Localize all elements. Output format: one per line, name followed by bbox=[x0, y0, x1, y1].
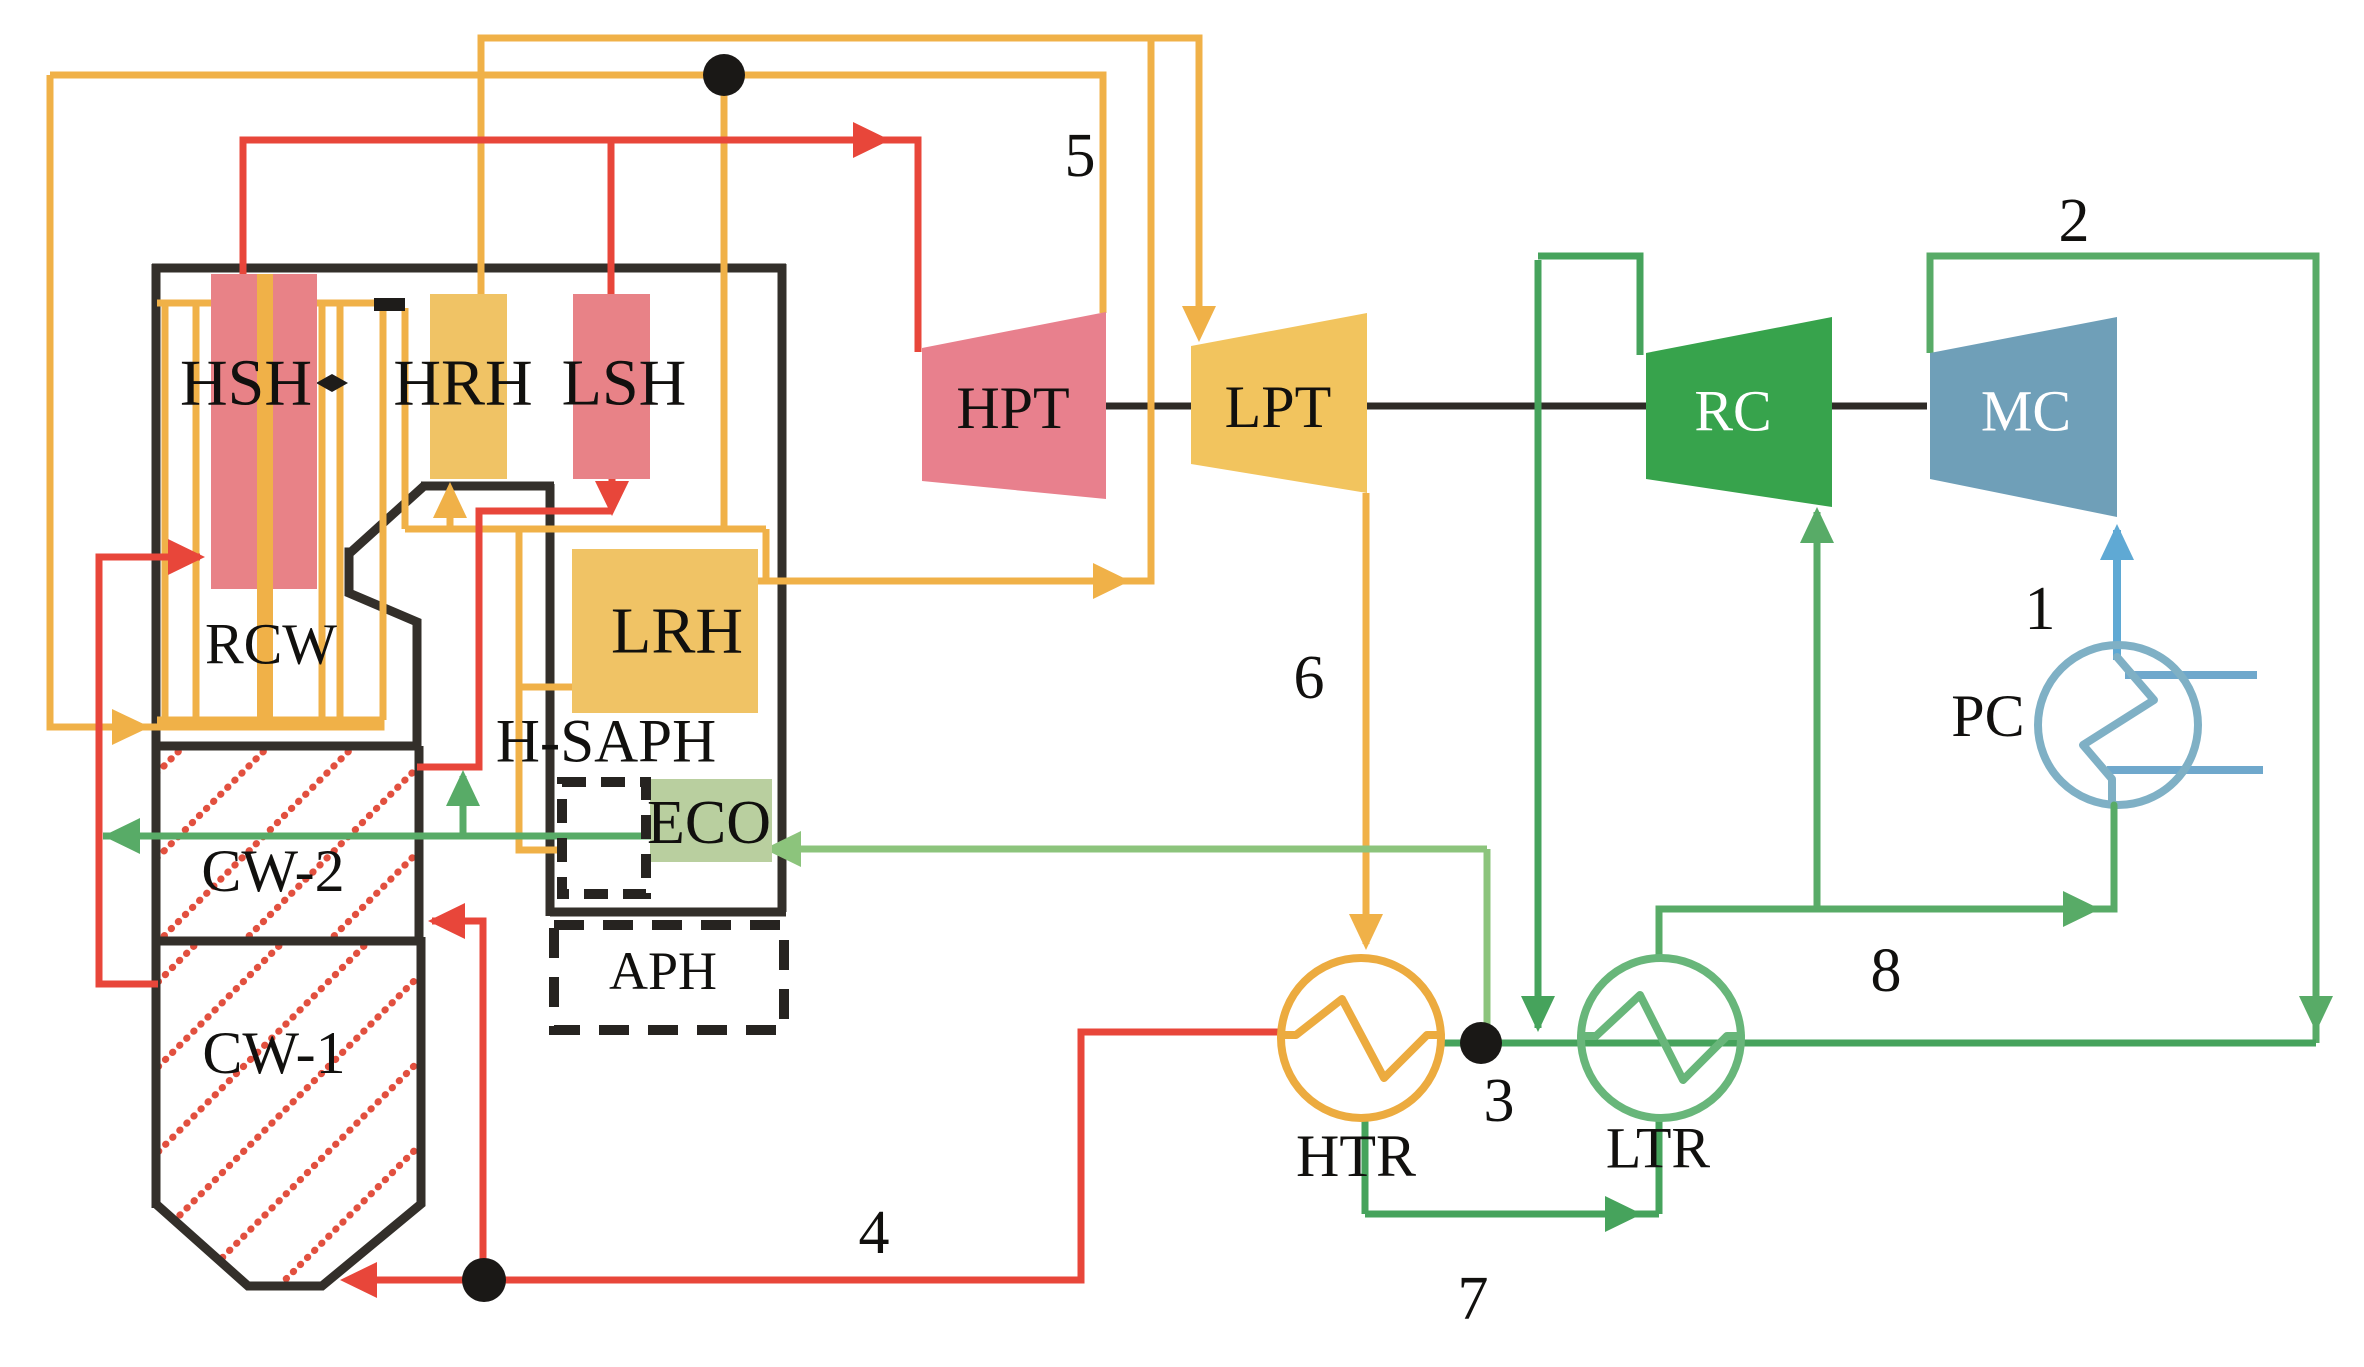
svg-text:CW-1: CW-1 bbox=[202, 1020, 345, 1086]
svg-text:6: 6 bbox=[1294, 644, 1325, 712]
svg-text:ECO: ECO bbox=[647, 789, 771, 857]
svg-text:8: 8 bbox=[1871, 937, 1902, 1005]
svg-text:HPT: HPT bbox=[956, 375, 1069, 441]
svg-text:RC: RC bbox=[1694, 379, 1771, 444]
svg-text:3: 3 bbox=[1484, 1067, 1515, 1135]
svg-text:HSH: HSH bbox=[180, 347, 312, 420]
svg-text:LSH: LSH bbox=[562, 347, 687, 420]
svg-text:LRH: LRH bbox=[611, 595, 743, 668]
svg-text:CW-2: CW-2 bbox=[201, 838, 344, 904]
svg-text:2: 2 bbox=[2059, 187, 2090, 255]
svg-text:1: 1 bbox=[2025, 575, 2056, 643]
svg-text:HRH: HRH bbox=[393, 347, 532, 420]
svg-text:LTR: LTR bbox=[1606, 1116, 1711, 1181]
svg-text:PC: PC bbox=[1951, 683, 2024, 749]
svg-text:H-SAPH: H-SAPH bbox=[496, 709, 716, 776]
svg-text:4: 4 bbox=[859, 1199, 890, 1267]
svg-text:APH: APH bbox=[609, 941, 717, 1001]
svg-text:RCW: RCW bbox=[205, 612, 337, 677]
svg-text:5: 5 bbox=[1065, 122, 1096, 190]
svg-text:MC: MC bbox=[1981, 379, 2071, 444]
svg-text:LPT: LPT bbox=[1225, 374, 1332, 440]
svg-text:7: 7 bbox=[1458, 1265, 1489, 1333]
svg-text:HTR: HTR bbox=[1296, 1123, 1416, 1189]
